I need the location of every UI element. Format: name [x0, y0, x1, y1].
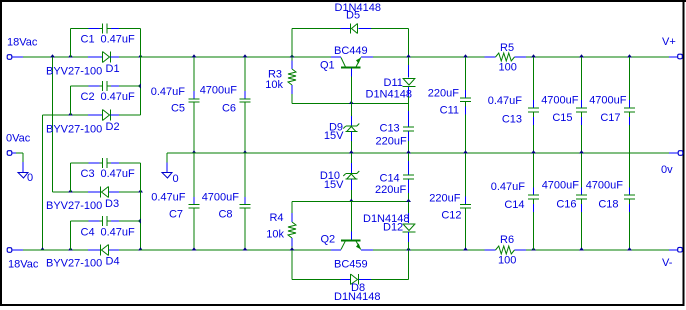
wire C14 stub upper: [408, 153, 410, 175]
junction node A at x52: [50, 54, 55, 57]
svg-text:C13: C13: [502, 113, 522, 125]
svg-text:4700uF: 4700uF: [541, 95, 579, 107]
junction C7 bottom: [192, 247, 197, 250]
wire AC top row: [23, 56, 88, 58]
capacitor C2: [81, 81, 136, 103]
junction C14 bottom: [406, 199, 411, 202]
svg-text:C14: C14: [380, 172, 400, 184]
wire C7 column lower: [193, 209, 195, 251]
wire D5 loop left: [291, 29, 293, 58]
wire C13 (0.47uF) column: [533, 57, 535, 108]
wire V+ out rail segment 1: [373, 56, 485, 58]
junction C8 bottom: [243, 247, 248, 250]
svg-text:4700uF: 4700uF: [586, 180, 624, 192]
wire right loop vertical upper (C1/C2 cathode bus): [140, 29, 142, 116]
wire C13 stub upper: [408, 104, 410, 127]
wire D5 loop top-right: [359, 28, 409, 30]
svg-text:D4: D4: [106, 256, 120, 268]
capacitor C16: [542, 180, 587, 211]
wire D3 anode lead: [109, 191, 141, 193]
wire D3 cathode lead: [88, 191, 100, 193]
svg-text:BYV27-100: BYV27-100: [46, 124, 102, 136]
ground 0 (input): [18, 172, 33, 184]
wire D8 loop left: [291, 250, 293, 280]
wire D11 cathode stub: [408, 87, 410, 104]
wire zener D10 stub upper: [350, 153, 352, 173]
wire node A vertical (top 18Vac to D3 cathode): [52, 57, 54, 192]
svg-text:C17: C17: [600, 112, 620, 124]
wire D1 anode lead: [88, 56, 102, 58]
junction D3 anode x140: [138, 189, 143, 192]
capacitor C3: [81, 158, 136, 180]
resistor R4: [266, 202, 296, 251]
svg-text:BC449: BC449: [334, 45, 368, 57]
svg-text:4700uF: 4700uF: [200, 85, 238, 97]
wire D8 loop bottom-left: [292, 279, 350, 281]
wire C1 loop left: [70, 29, 72, 58]
junction C4 left on row4: [68, 247, 73, 250]
svg-text:D12: D12: [383, 221, 403, 233]
junction C18 bottom: [627, 247, 632, 250]
junction C11 bottom: [463, 150, 468, 153]
svg-text:D2: D2: [106, 121, 120, 133]
junction C12 bottom: [463, 247, 468, 250]
wire 0v rail to ground elbow: [166, 153, 168, 173]
svg-text:C8: C8: [218, 209, 232, 221]
wire V+ raw rail segment: [141, 56, 332, 58]
wire C11 column: [465, 57, 467, 98]
capacitor C14 (220uF): [375, 172, 414, 196]
svg-text:V+: V+: [662, 36, 676, 48]
wire 0Vac to ground: [16, 153, 23, 173]
diode D11: [366, 77, 416, 100]
port V-: [662, 247, 682, 269]
capacitor C6: [200, 85, 251, 115]
wire C15 column: [581, 57, 583, 108]
junction D1 cathode x140: [138, 54, 143, 57]
svg-text:0.47uF: 0.47uF: [491, 181, 526, 193]
junction C15 bottom: [579, 150, 584, 153]
wire D2 anode corner: [42, 115, 44, 250]
wire C13 stub lower: [408, 132, 410, 154]
wire C13 (0.47uF) column lower: [533, 113, 535, 154]
svg-text:15V: 15V: [324, 179, 344, 191]
capacitor C14 (0.47uF): [491, 181, 539, 211]
svg-text:C18: C18: [598, 199, 618, 211]
resistor R6: [485, 234, 527, 267]
svg-text:10k: 10k: [266, 229, 284, 241]
capacitor C17: [589, 95, 635, 125]
capacitor C5: [151, 86, 200, 115]
wire C15 column lower: [581, 113, 583, 154]
wire C17 column: [629, 57, 631, 108]
svg-text:0.47uF: 0.47uF: [488, 95, 523, 107]
svg-text:Q1: Q1: [320, 60, 335, 72]
svg-text:4700uF: 4700uF: [589, 95, 627, 107]
svg-text:C16: C16: [556, 199, 576, 211]
wire C4 loop left: [70, 221, 72, 250]
wire D4 cathode lead: [88, 249, 100, 251]
svg-text:R6: R6: [500, 234, 514, 246]
junction C13 bottom: [406, 150, 411, 153]
junction C13b bottom: [531, 150, 536, 153]
wire V- out rail segment 1: [373, 249, 485, 251]
svg-text:C14: C14: [504, 199, 524, 211]
capacitor C12: [429, 193, 471, 222]
wire C3 loop left: [70, 163, 72, 192]
port 18Vac top: [7, 37, 38, 60]
wire 0v rail: [167, 152, 669, 154]
junction V- out at x408: [406, 247, 411, 250]
wire D2 cathode lead: [111, 114, 141, 116]
svg-text:Q2: Q2: [321, 233, 336, 245]
junction C4 right: [138, 219, 141, 224]
svg-text:15V: 15V: [324, 130, 344, 142]
svg-text:0.47uF: 0.47uF: [151, 86, 186, 98]
capacitor C15: [541, 95, 587, 125]
wire C6 column lower: [244, 103, 246, 154]
capacitor C13 (220uF): [376, 122, 415, 147]
junction C2 right: [138, 84, 141, 89]
svg-text:V-: V-: [662, 257, 673, 269]
diode D4: [46, 245, 120, 270]
junction Q1 base node: [349, 101, 354, 104]
svg-text:C7: C7: [169, 209, 183, 221]
wire base node 1: [292, 103, 409, 105]
wire V+ out rail segment 2: [526, 56, 669, 58]
svg-text:220uF: 220uF: [429, 193, 460, 205]
diode D8: [334, 274, 380, 303]
resistor R5: [485, 42, 527, 74]
junction D4 anode x140: [138, 247, 143, 250]
svg-text:0: 0: [27, 172, 33, 184]
svg-text:D1: D1: [106, 63, 120, 75]
capacitor C18: [586, 180, 635, 211]
wire AC bottom row left: [23, 249, 88, 251]
junction D10 on base node 2: [349, 199, 354, 202]
wire C12 column: [465, 153, 467, 204]
wire V- out rail segment 2: [526, 249, 669, 251]
svg-text:BYV27-100: BYV27-100: [46, 200, 102, 212]
wire C3 loop top-right: [107, 162, 141, 164]
wire C2 loop top-left: [71, 85, 103, 87]
wire D8 loop right: [408, 250, 410, 280]
wire C6 column upper: [244, 57, 246, 99]
svg-text:C1: C1: [81, 34, 95, 46]
junction D2 anode bottom: [40, 247, 45, 250]
svg-text:10k: 10k: [265, 79, 283, 91]
wire D2 row left: [43, 114, 89, 116]
junction C6 bottom: [243, 150, 248, 153]
wire C14 (0.47uF) column lower: [533, 200, 535, 251]
wire Q2 collector stub: [331, 249, 341, 251]
svg-text:220uF: 220uF: [428, 88, 459, 100]
port 0Vac: [6, 133, 31, 156]
capacitor C11: [428, 88, 471, 117]
wire right loop vertical lower (C3/C4 bus): [140, 163, 142, 250]
wire D3 row left: [53, 191, 89, 193]
svg-text:18Vac: 18Vac: [8, 259, 39, 271]
svg-text:C11: C11: [440, 105, 459, 117]
junction C17 top: [627, 54, 632, 57]
svg-text:4700uF: 4700uF: [542, 180, 580, 192]
svg-text:220uF: 220uF: [375, 184, 406, 196]
diode D2: [46, 110, 120, 136]
wire zener D9 stub lower: [350, 132, 352, 154]
svg-text:BC459: BC459: [334, 258, 368, 270]
junction R4 bottom: [290, 247, 295, 250]
wire D1 cathode lead: [111, 56, 141, 58]
diode D12: [363, 213, 416, 234]
svg-text:0.47uF: 0.47uF: [101, 91, 136, 103]
svg-text:220uF: 220uF: [376, 136, 407, 148]
svg-text:R5: R5: [500, 42, 514, 54]
wire C2 loop top-right: [107, 85, 141, 87]
junction C11 top: [463, 54, 468, 57]
port V+: [662, 36, 682, 59]
svg-text:4700uF: 4700uF: [202, 192, 240, 204]
wire C8 column upper: [244, 153, 246, 204]
wire C12 column lower: [465, 209, 467, 251]
wire C18 column: [629, 153, 631, 195]
svg-text:D1N4148: D1N4148: [366, 88, 412, 100]
wire base node 2: [292, 201, 409, 203]
wire C5 column lower: [193, 103, 195, 154]
wire D2 anode lead: [88, 114, 102, 116]
wire D5 loop right: [408, 29, 410, 58]
svg-text:0: 0: [173, 173, 179, 185]
svg-text:18Vac: 18Vac: [7, 37, 38, 49]
junction V+ out at x408: [406, 54, 411, 57]
wire C14 (0.47uF) column: [533, 153, 535, 195]
port 0v: [661, 151, 683, 176]
svg-text:100: 100: [499, 62, 517, 74]
port 18Vac bottom: [7, 248, 39, 271]
wire D12 anode stub: [408, 202, 410, 224]
zener D10: [320, 170, 359, 191]
wire C5 column upper: [193, 57, 195, 99]
wire C11 column lower: [465, 102, 467, 153]
junction C15 top: [579, 54, 584, 57]
wire C16 column: [581, 153, 583, 195]
capacitor C4: [81, 216, 136, 239]
junction C6 top: [243, 54, 248, 57]
wire Q1 emitter stub: [361, 56, 373, 58]
svg-text:C4: C4: [81, 227, 95, 239]
svg-text:C6: C6: [222, 103, 236, 115]
wire C1 loop top-right: [107, 28, 141, 30]
svg-text:C15: C15: [552, 112, 572, 124]
transistor Q2: [321, 202, 368, 271]
svg-text:C3: C3: [81, 168, 95, 180]
junction C5 top: [192, 54, 197, 57]
wire V- raw rail segment: [141, 249, 332, 251]
junction C5 bottom: [192, 150, 197, 153]
wire zener D10 stub lower: [350, 179, 352, 202]
wire C18 column lower: [629, 200, 631, 251]
junction C1 left on row1: [68, 54, 73, 57]
wire C3 loop top-left: [71, 162, 103, 164]
wire C17 column lower: [629, 113, 631, 154]
svg-text:D1N4148: D1N4148: [334, 291, 380, 303]
wire C4 loop top-right: [107, 220, 141, 222]
junction R5 right / C13 top: [531, 54, 536, 57]
capacitor C1: [81, 24, 136, 46]
wire D11 anode stub: [408, 57, 410, 78]
svg-text:BYV27-100: BYV27-100: [46, 258, 102, 270]
wire C7 column upper: [193, 153, 195, 204]
capacitor C8: [202, 192, 251, 221]
wire C4 loop top-left: [71, 220, 103, 222]
capacitor C7: [151, 192, 199, 221]
svg-text:C13: C13: [380, 122, 400, 134]
capacitor C13 (0.47uF): [488, 95, 539, 125]
diode D5: [335, 2, 381, 34]
svg-text:R4: R4: [269, 212, 283, 224]
svg-text:C5: C5: [171, 103, 185, 115]
wire C8 column lower: [244, 209, 246, 251]
wire C16 column lower: [581, 200, 583, 251]
svg-text:0v: 0v: [661, 164, 673, 176]
svg-text:C2: C2: [81, 91, 95, 103]
svg-text:BYV27-100: BYV27-100: [46, 66, 102, 78]
wire D12 cathode stub: [408, 232, 410, 250]
svg-text:0.47uF: 0.47uF: [151, 192, 186, 204]
svg-text:C12: C12: [441, 209, 461, 221]
wire D5 loop top-left: [292, 28, 350, 30]
junction raw V+ at x292: [290, 54, 295, 57]
svg-text:0Vac: 0Vac: [6, 133, 31, 145]
wire D4 anode lead: [109, 249, 141, 251]
wire C2 loop left: [70, 86, 72, 115]
junction R6 right / C14 top: [531, 247, 536, 250]
wire C14 stub lower: [408, 180, 410, 202]
junction C2 left on row2: [68, 112, 73, 115]
zener D9: [324, 121, 359, 142]
diode D1: [46, 52, 120, 78]
wire zener D9 stub upper: [350, 104, 352, 126]
svg-text:D5: D5: [346, 9, 360, 21]
svg-text:0.47uF: 0.47uF: [101, 168, 136, 180]
transistor Q1: [320, 45, 368, 104]
diode D3: [46, 187, 119, 213]
wire D8 loop bottom-right: [359, 279, 409, 281]
svg-text:0.47uF: 0.47uF: [101, 34, 136, 46]
wire C1 loop top-left: [71, 28, 103, 30]
junction C3 left on row3: [68, 189, 73, 192]
ground 0 (0v rail): [162, 173, 179, 186]
svg-text:0.47uF: 0.47uF: [101, 227, 136, 239]
resistor R3: [265, 57, 296, 104]
svg-text:100: 100: [498, 255, 516, 267]
wire Q2 emitter stub: [361, 249, 373, 251]
junction D9 anode on 0v rail: [349, 150, 354, 153]
svg-text:D11: D11: [384, 77, 403, 89]
svg-text:D3: D3: [105, 198, 119, 210]
junction C16 bottom: [579, 247, 584, 250]
wire Q1 collector stub: [331, 56, 341, 58]
